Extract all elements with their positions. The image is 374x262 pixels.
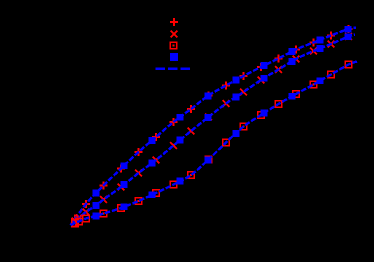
legend key: dashed line sample	[156, 68, 191, 70]
legend key: open-square sample	[170, 42, 177, 49]
legend key: cross sample	[171, 31, 178, 38]
node CR: red point markers of curve C (open-square data series)	[72, 61, 352, 226]
legend key: plus sample	[170, 18, 178, 26]
wire: dashed blue fitted line of curve B (cross data series)	[71, 35, 356, 226]
node BB: blue filled-square points of curve B (cross data series)	[93, 33, 352, 209]
wire: dashed blue fitted line of curve C (open-square data series)	[71, 62, 358, 226]
node AR: red point markers of curve A (plus data series)	[71, 25, 353, 223]
node BR: red point markers of curve B (cross data series)	[72, 33, 352, 225]
node AB: blue filled-square points of curve A (plus data series)	[93, 26, 352, 197]
wire: dashed blue fitted line of curve A (plus data series)	[71, 28, 357, 226]
legend key: filled-square sample	[170, 53, 178, 61]
node CB: blue filled-square points of curve C (open-square data series)	[93, 77, 324, 219]
